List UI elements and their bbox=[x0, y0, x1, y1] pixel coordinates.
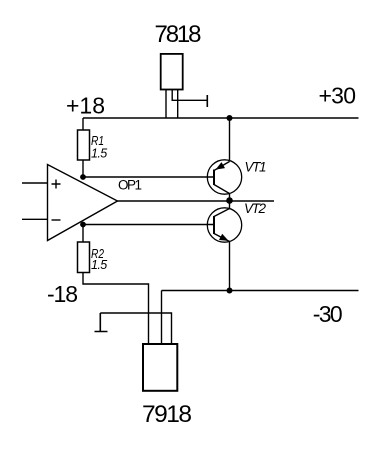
regulator U1 7818 body bbox=[161, 54, 183, 90]
wire R1 bottom lead bbox=[82, 160, 84, 177]
regulator U3 7918 body bbox=[143, 344, 177, 391]
wire VT2 base wire bbox=[83, 224, 214, 226]
node dot -30 rail bbox=[227, 288, 233, 294]
wire VT1 collector from rail bbox=[229, 118, 231, 162]
wire +30 rail bbox=[83, 117, 359, 119]
transistor VT1 collector diagonal bbox=[214, 185, 230, 201]
svg-text:+30: +30 bbox=[319, 83, 357, 109]
wire -30 rail corner to 7918 bbox=[161, 291, 163, 345]
svg-text:7918: 7918 bbox=[142, 401, 192, 428]
ground bbox=[95, 313, 108, 332]
wire noninverting input lead bbox=[22, 182, 48, 184]
wire VT1/VT2 junction vertical bbox=[229, 201, 231, 209]
wire R2 top lead bbox=[82, 225, 84, 243]
transistor VT1 base bar bbox=[213, 170, 215, 186]
transistor VT1 emitter arrow bbox=[216, 162, 226, 170]
svg-text:+18: +18 bbox=[66, 93, 105, 119]
svg-text:VT1: VT1 bbox=[245, 160, 267, 175]
resistor R2 bbox=[78, 242, 90, 273]
transistor VT1 circle bbox=[207, 160, 241, 194]
transistor VT2 circle bbox=[207, 208, 241, 242]
minus sign bbox=[52, 219, 61, 221]
plus sign bbox=[52, 180, 61, 189]
wire op-amp output bbox=[118, 200, 275, 202]
svg-text:OP1: OP1 bbox=[118, 178, 142, 193]
transistor VT2 collector diagonal bbox=[214, 209, 230, 217]
wire ground branch to 7918 bbox=[100, 313, 171, 344]
wire rail corner down to R1 bbox=[82, 118, 84, 130]
wire VT1 base wire bbox=[83, 176, 214, 178]
node dot output junction bbox=[226, 197, 233, 204]
wire inverting input lead bbox=[22, 218, 48, 220]
wire U1 middle lead to stub bbox=[172, 90, 207, 101]
wire U1 right lead bbox=[177, 90, 179, 119]
transistor VT2 base bar bbox=[213, 216, 215, 234]
wire -30 rail bbox=[162, 290, 359, 292]
terminal tick bbox=[206, 95, 208, 107]
svg-text:7818: 7818 bbox=[155, 21, 202, 48]
svg-text:1.5: 1.5 bbox=[91, 146, 107, 160]
wire U1 left lead bbox=[165, 90, 167, 119]
svg-text:-30: -30 bbox=[313, 301, 343, 327]
resistor R1 bbox=[78, 130, 90, 160]
transistor VT1 emitter diagonal bbox=[214, 162, 230, 171]
wire R2 bottom lead to 7918 input bbox=[83, 273, 149, 345]
transistor VT2 emitter diagonal bbox=[214, 234, 230, 242]
transistor VT2 emitter arrow bbox=[219, 234, 229, 241]
node dot R2/VT2 base bbox=[80, 222, 86, 228]
svg-text:VT2: VT2 bbox=[244, 201, 266, 216]
node dot R1/VT1 base bbox=[80, 174, 86, 180]
svg-text:-18: -18 bbox=[47, 281, 78, 307]
node dot +30 rail bbox=[227, 115, 233, 121]
wire VT2 emitter to -30 rail bbox=[229, 242, 231, 291]
op-amp U2 triangle bbox=[48, 165, 118, 241]
svg-text:1.5: 1.5 bbox=[91, 258, 107, 272]
